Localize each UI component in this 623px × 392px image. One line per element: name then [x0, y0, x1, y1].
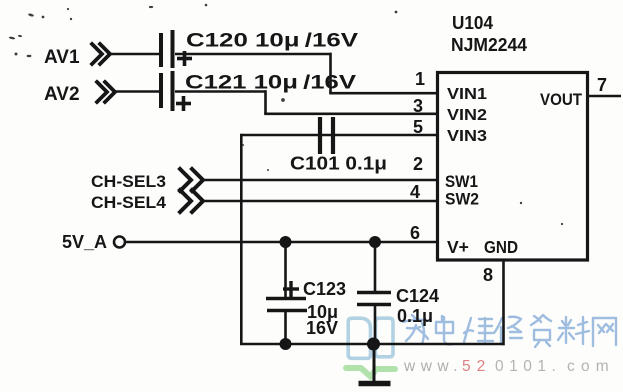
watermark text (hand-drawn hanzi strokes) — [403, 315, 616, 347]
node CH-SEL4 chevron — [180, 190, 203, 212]
wire 5V_A to pin 6 — [125, 241, 438, 244]
svg-text:5: 5 — [413, 117, 423, 137]
pin name VIN2 — [447, 107, 487, 124]
wire C121 to corner — [175, 90, 267, 93]
value label C121 10u/16V — [185, 73, 356, 94]
wire CH-SEL3 to pin 2 — [202, 179, 438, 182]
node AV1 input chevron — [92, 44, 110, 64]
svg-text:VIN2: VIN2 — [447, 107, 487, 124]
node 5V_A label — [62, 232, 107, 252]
node AV2 label — [44, 84, 80, 105]
junction dot V+ / C123 — [280, 236, 292, 248]
svg-text:NJM2244: NJM2244 — [451, 35, 527, 55]
svg-text:VIN3: VIN3 — [447, 128, 487, 145]
svg-text:52: 52 — [462, 358, 491, 375]
svg-text:16V: 16V — [306, 318, 338, 338]
pin name V+ — [447, 237, 469, 257]
value label C124 0.1u — [396, 286, 439, 326]
label U104 — [452, 13, 493, 33]
junction dot bottom rail / C124 / ground — [367, 338, 380, 351]
capacitor C101 — [320, 117, 333, 154]
pin 8 number — [483, 265, 493, 285]
svg-text:VOUT: VOUT — [540, 91, 582, 109]
value label C123 10u 16V — [303, 279, 346, 338]
watermark logo green swoosh — [346, 368, 395, 377]
wire corner down — [329, 53, 332, 93]
pin name SW1 — [445, 173, 478, 191]
svg-text:0101.: 0101. — [495, 358, 561, 375]
pin name VIN1 — [447, 86, 487, 103]
svg-text:1: 1 — [415, 69, 425, 89]
watermark logo book icon — [348, 318, 393, 358]
wire pin 5 row — [241, 134, 438, 137]
op-amp U104 NJM2244 body — [438, 73, 588, 261]
svg-text:CH-SEL3: CH-SEL3 — [91, 173, 166, 191]
wire into pin 3 — [264, 113, 438, 116]
svg-text:8: 8 — [483, 265, 493, 285]
wire left vertical from C101 down to bottom rail — [240, 134, 243, 345]
pin name SW2 — [445, 191, 479, 209]
svg-text:C123: C123 — [303, 279, 346, 299]
wire pin 8 down from GND — [502, 260, 505, 345]
svg-text:5V_A: 5V_A — [62, 232, 107, 252]
svg-text:VIN1: VIN1 — [447, 86, 487, 103]
pin 2 number — [413, 154, 423, 174]
junction dot V+ / C124 — [369, 236, 381, 248]
capacitor C121 — [161, 71, 191, 111]
svg-text:GND: GND — [484, 237, 518, 257]
svg-text:C124: C124 — [396, 286, 439, 306]
watermark url www.520101.com — [403, 358, 615, 375]
svg-text:0.1μ: 0.1μ — [397, 306, 433, 326]
svg-text:6: 6 — [410, 223, 420, 243]
svg-text:C101 0.1μ: C101 0.1μ — [290, 154, 387, 174]
label NJM2244 — [451, 35, 527, 55]
scan speckles (noise) — [9, 4, 563, 225]
pin 1 number — [415, 69, 425, 89]
wire bottom rail — [240, 343, 505, 346]
node CH-SEL3 label — [91, 173, 166, 191]
terminal circle 5V_A — [114, 237, 125, 248]
svg-text:www.: www. — [403, 358, 463, 375]
pin 3 number — [413, 96, 423, 116]
pin 7 number — [597, 75, 607, 95]
svg-text:7: 7 — [597, 75, 607, 95]
value label C101 0.1u — [290, 154, 387, 174]
node AV2 input chevron — [97, 82, 115, 102]
svg-text:CH-SEL4: CH-SEL4 — [91, 194, 167, 212]
node CH-SEL3 chevron — [180, 169, 203, 191]
svg-text:SW1: SW1 — [445, 173, 478, 191]
capacitor C120 — [161, 30, 192, 68]
wire AV2 to C121 — [114, 90, 159, 93]
pin name VIN3 — [447, 128, 487, 145]
wire CH-SEL4 to pin 4 — [202, 200, 438, 203]
ground — [359, 344, 391, 384]
pin 5 number — [413, 117, 423, 137]
svg-text:2: 2 — [413, 154, 423, 174]
svg-text:V+: V+ — [447, 237, 469, 257]
svg-text:SW2: SW2 — [445, 191, 479, 209]
pin name VOUT — [540, 91, 582, 109]
node AV1 label — [44, 47, 80, 68]
capacitor C124 — [357, 242, 391, 345]
svg-text:4: 4 — [410, 182, 420, 202]
wire into pin 1 — [329, 92, 438, 95]
svg-text:U104: U104 — [452, 13, 493, 33]
wire C120 to corner — [175, 53, 332, 56]
node CH-SEL4 label — [91, 194, 167, 212]
value label C120 10u/16V — [186, 31, 358, 52]
pin 6 number — [410, 223, 420, 243]
pin 4 number — [410, 182, 420, 202]
junction dot bottom rail / C123 — [280, 338, 292, 350]
pin name GND — [484, 237, 518, 257]
svg-text:AV1: AV1 — [44, 47, 80, 68]
wire pin 7 output — [588, 95, 621, 98]
wire AV1 to C120 — [109, 53, 159, 56]
svg-text:C120 10μ /16V: C120 10μ /16V — [186, 31, 358, 52]
svg-text:AV2: AV2 — [44, 84, 80, 105]
svg-text:3: 3 — [413, 96, 423, 116]
capacitor C123 (electrolytic) — [266, 242, 307, 345]
wire corner down to pin3 row — [264, 90, 267, 114]
svg-text:com: com — [567, 358, 615, 375]
